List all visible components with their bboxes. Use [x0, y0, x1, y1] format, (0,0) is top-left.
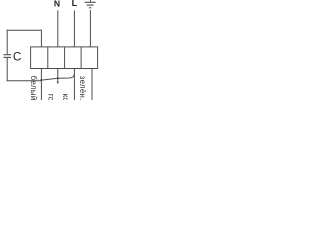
wire fan-box left lower: [6, 58, 8, 82]
wire PE to terminal 4: [89, 10, 91, 47]
capacitor C plate 1: [4, 54, 12, 56]
wire blue (terminal 2 down): [57, 69, 59, 83]
wire yellow-green (terminal 4 down): [91, 69, 93, 101]
wire PE stem: [89, 0, 91, 2]
terminal block X outline: [31, 47, 98, 69]
svg-text:коричневый: коричневый: [61, 94, 70, 100]
arrowhead blue wire: [57, 82, 59, 84]
svg-text:N: N: [54, 0, 60, 8]
ground bar 1: [85, 1, 96, 3]
svg-text:зелён.: зелён.: [78, 76, 87, 100]
wire fan-box right (to terminal 1): [40, 30, 42, 47]
svg-text:L: L: [72, 0, 78, 8]
wire N supply: [57, 10, 59, 47]
wire fan-box bottom (capacitor to node A): [7, 80, 42, 82]
svg-text:C: C: [13, 50, 22, 64]
terminal divider 1-2: [47, 47, 49, 69]
capacitor C plate 2: [4, 56, 12, 58]
wire L supply: [73, 10, 75, 47]
wire white (terminal 1 down): [40, 69, 42, 101]
wire brown (terminal 3 down): [73, 69, 75, 101]
node A junction dot: [40, 79, 42, 81]
terminal divider 2-3: [64, 47, 66, 69]
terminal divider 3-4: [80, 47, 82, 69]
wire fan-box top: [7, 29, 42, 31]
ground bar 3: [89, 7, 91, 9]
svg-text:белый: белый: [29, 76, 38, 100]
svg-text:голубой: голубой: [47, 94, 56, 100]
ground bar 2: [87, 4, 94, 6]
node B junction dot: [57, 77, 59, 79]
wire node A to node B (capacitor bus): [41, 74, 74, 80]
wire fan-box left upper: [6, 30, 8, 55]
